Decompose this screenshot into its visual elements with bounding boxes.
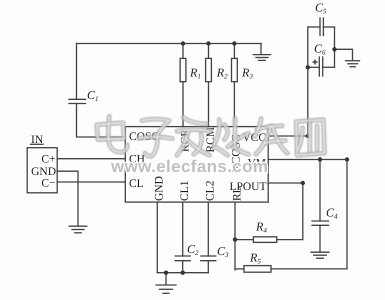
wire top rail [77, 43, 262, 45]
node rail-R2 [206, 41, 210, 45]
svg-text:GND: GND [154, 176, 166, 201]
capacitor C4 [319, 160, 321, 222]
wire C5/C6 left vertical to VCC [268, 27, 308, 136]
ground C4 [311, 252, 329, 258]
wire C1 branch vertical [76, 44, 78, 100]
resistor R4 [235, 239, 253, 241]
wire bottom common [157, 272, 208, 274]
svg-text:CL2: CL2 [205, 180, 217, 201]
wire CL1 pin down [182, 202, 184, 256]
node rail-R1 [181, 41, 185, 45]
IN underline [31, 143, 44, 145]
svg-text:IN: IN [31, 134, 44, 146]
node C2 bottom [181, 271, 185, 275]
svg-text:R3: R3 [241, 66, 253, 81]
svg-text:RL: RL [232, 186, 244, 201]
node C6 left [306, 65, 310, 69]
wire GND to ground [57, 171, 78, 226]
capacitor C3 [201, 255, 216, 257]
node LPOUT [301, 181, 305, 185]
capacitor C6 [308, 66, 320, 68]
wire C- to CL [57, 181, 125, 183]
wire C5/C6 right vertical [334, 27, 336, 67]
labels [31, 127, 267, 201]
capacitor C5 [308, 26, 320, 28]
wire C+ to CH [57, 158, 125, 160]
wire GND pin down [156, 202, 158, 273]
capacitor C1 [69, 98, 86, 100]
svg-text:CL1: CL1 [179, 180, 191, 201]
capacitor C2 [175, 255, 190, 257]
resistor R2 [208, 44, 210, 59]
wire LPOUT [268, 182, 303, 184]
node VM-C4 [318, 157, 322, 161]
node RL-R4 [233, 237, 237, 241]
svg-text:C−: C− [41, 178, 55, 190]
resistor R1 [182, 44, 184, 59]
node rail-R3 [232, 41, 236, 45]
plus sign C6 [313, 60, 318, 65]
IN box [27, 148, 57, 193]
svg-text:C6: C6 [314, 42, 326, 57]
svg-text:C3: C3 [217, 244, 229, 259]
svg-text:R2: R2 [216, 66, 228, 81]
resistor R5 [235, 268, 244, 270]
svg-text:R1: R1 [189, 66, 201, 81]
ground near C6 [346, 61, 360, 67]
wire VM [268, 159, 347, 161]
svg-text:CL: CL [129, 178, 144, 190]
ground top-right [253, 55, 270, 61]
svg-text:C2: C2 [187, 242, 199, 257]
node C6 right [332, 47, 336, 51]
node gnd tap [164, 271, 168, 275]
svg-text:R4: R4 [255, 220, 267, 235]
svg-text:C1: C1 [87, 88, 99, 103]
wire ground stem bottom [165, 273, 167, 285]
svg-text:C4: C4 [326, 206, 338, 221]
svg-text:www.elecfans.com: www.elecfans.com [110, 157, 268, 176]
IC U1 box [125, 127, 268, 203]
svg-text:GND: GND [31, 166, 56, 178]
wire rail to top-right ground [260, 44, 262, 54]
wire C1 to COSC [77, 104, 126, 138]
node VM-R5 [345, 157, 349, 161]
svg-text:C+: C+ [41, 154, 55, 166]
node VCC corner [306, 134, 310, 138]
wire C6 right to ground [335, 49, 353, 60]
wire CL2 pin down [207, 202, 209, 256]
wire RL pin down [234, 202, 236, 270]
resistor R3 [233, 44, 235, 59]
svg-text:R5: R5 [249, 251, 261, 266]
ground left [69, 226, 87, 233]
ground bottom [156, 285, 176, 293]
svg-text:C5: C5 [315, 1, 327, 16]
